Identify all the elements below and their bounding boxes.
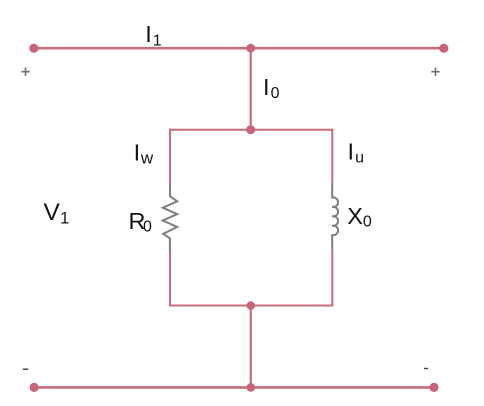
- wire: drop from box to bottom bus: [250, 306, 252, 388]
- svg-text:I: I: [134, 139, 141, 165]
- polarity: left plus: [21, 68, 29, 76]
- svg-text:1: 1: [60, 210, 69, 228]
- wire: bottom bus (return line): [34, 386, 434, 389]
- node: top-center junction: [246, 44, 255, 53]
- label I0: [263, 74, 280, 102]
- svg-text:1: 1: [153, 33, 162, 50]
- node: bottom-left terminal: [29, 383, 38, 392]
- node: box-bottom junction: [247, 301, 256, 310]
- wire: right branch lower segment: [331, 250, 333, 307]
- wire: left branch lower segment: [169, 251, 171, 307]
- svg-text:u: u: [355, 149, 364, 166]
- wire: box bottom edge: [169, 305, 333, 307]
- resistor R0: [163, 183, 177, 251]
- svg-text:V: V: [44, 199, 61, 226]
- wire: right branch upper segment: [331, 129, 333, 183]
- wire: left branch upper segment: [169, 129, 171, 184]
- polarity: left minus: [23, 368, 28, 370]
- label X0: [347, 203, 372, 231]
- node: box-top junction: [246, 125, 255, 134]
- svg-text:I: I: [263, 74, 270, 100]
- label V1: [44, 199, 70, 228]
- wire: box top edge: [169, 129, 333, 131]
- node: bottom-right terminal: [429, 383, 438, 392]
- svg-text:w: w: [140, 149, 154, 168]
- label R0: [129, 208, 153, 236]
- label I1: [145, 21, 162, 50]
- label Iw: [134, 139, 154, 167]
- node: top-left terminal: [29, 44, 38, 53]
- label Iu: [348, 139, 365, 167]
- svg-text:I: I: [348, 139, 355, 165]
- wire: top bus (primary line): [34, 47, 444, 50]
- svg-text:0: 0: [271, 85, 280, 102]
- svg-text:I: I: [145, 21, 152, 47]
- polarity: right plus: [431, 68, 439, 76]
- svg-text:X: X: [347, 203, 363, 229]
- inductor X0: [332, 182, 338, 249]
- svg-text:0: 0: [363, 214, 372, 231]
- wire: drop from top bus to shunt box: [250, 48, 252, 130]
- node: top-right terminal: [439, 44, 448, 53]
- polarity: right minus: [424, 368, 428, 370]
- node: bottom-center junction: [247, 383, 256, 392]
- svg-text:0: 0: [143, 219, 152, 236]
